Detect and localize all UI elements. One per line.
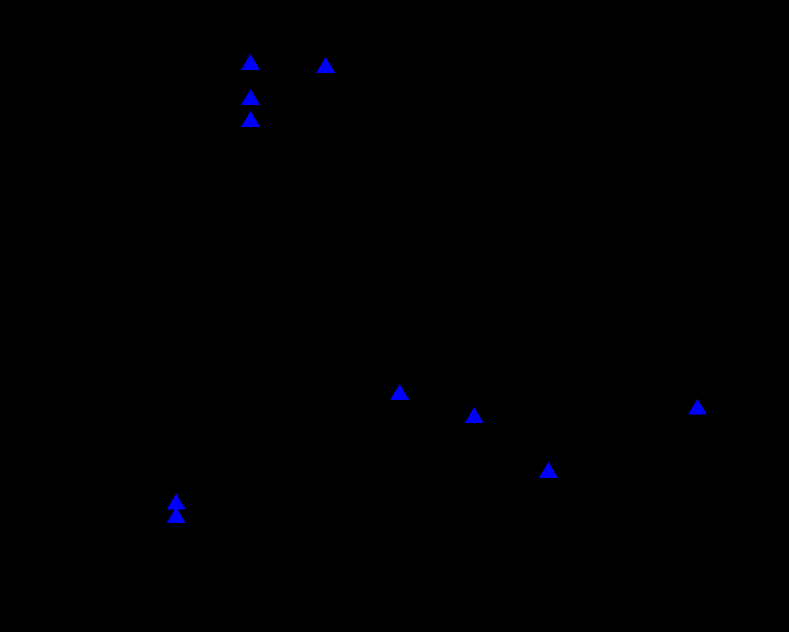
marker point 9 (x=1 col, upper of pair) xyxy=(167,494,186,510)
marker point 1 (x=2 col, top) xyxy=(241,54,260,70)
marker point 10 (x=1 col, lower of pair) xyxy=(167,507,186,523)
marker point 4 (x=2 col, third) xyxy=(241,111,260,127)
marker point 6 (x=5 col) xyxy=(465,407,484,423)
marker point 2 (x=3 col) xyxy=(316,57,335,73)
marker point 7 (x=8 col) xyxy=(688,399,707,415)
marker point 5 (x=4 col) xyxy=(390,384,409,400)
marker point 8 (x=6 col) xyxy=(539,462,558,478)
marker point 3 (x=2 col, second) xyxy=(241,89,260,105)
